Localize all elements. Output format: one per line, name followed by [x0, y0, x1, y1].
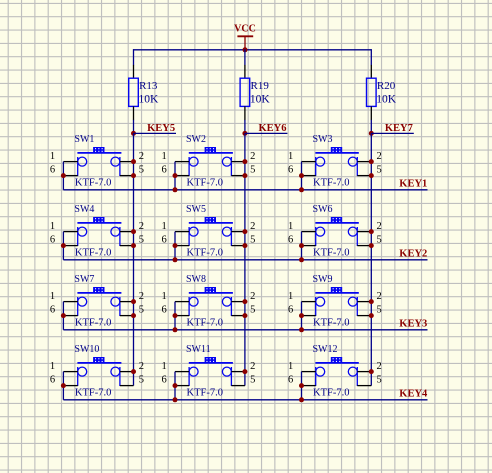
SW6 button cap [331, 217, 342, 222]
junction node KEY5 [131, 131, 136, 136]
junction SW5 pin6/pin1 tie [173, 243, 178, 248]
SW3 button cap [331, 147, 342, 152]
SW5 left terminal [188, 227, 190, 246]
SW1 pin 2 [120, 161, 134, 163]
wire net KEY7 stub [371, 132, 414, 134]
switch SW10 KTF-7.0 [50, 344, 144, 400]
SW10 button cap [93, 357, 104, 362]
SW2 left contact [189, 157, 198, 166]
svg-text:KTF-7.0: KTF-7.0 [313, 318, 349, 329]
wire SW8 left pins to row net [174, 302, 176, 330]
junction VCC rail / R19 branch [243, 47, 248, 52]
svg-text:SW1: SW1 [74, 134, 94, 145]
SW8 button cap [205, 287, 216, 292]
SW4 right terminal [119, 227, 121, 246]
junction SW2 pin2 to column bus [242, 159, 247, 164]
svg-text:6: 6 [288, 165, 293, 176]
svg-text:KEY3: KEY3 [399, 318, 427, 329]
SW11 pin 1 [175, 371, 189, 373]
svg-text:2: 2 [250, 221, 255, 232]
svg-text:KTF-7.0: KTF-7.0 [187, 318, 223, 329]
SW2 pin 5 [231, 175, 245, 177]
R20 pin 2 (bottom) [370, 106, 372, 120]
wire column bus KEY7 [370, 133, 372, 385]
svg-text:10K: 10K [376, 93, 397, 105]
SW9 pin 1 [302, 301, 316, 303]
svg-text:5: 5 [377, 235, 382, 246]
SW8 actuator bar [189, 292, 233, 294]
svg-text:5: 5 [250, 235, 255, 246]
svg-text:SW10: SW10 [74, 344, 99, 355]
wire net KEY3 row [63, 329, 427, 331]
wire SW10 left pins to row net [62, 372, 64, 400]
svg-text:KEY6: KEY6 [259, 123, 287, 134]
SW9 pin 2 [357, 301, 371, 303]
svg-text:5: 5 [139, 305, 144, 316]
wire SW6 left pins to row net [301, 232, 303, 260]
junction SW8 pin5 to column bus [242, 313, 247, 318]
junction SW1 pin2 to column bus [131, 159, 136, 164]
svg-text:6: 6 [161, 165, 166, 176]
svg-text:1: 1 [50, 361, 55, 372]
svg-text:5: 5 [250, 305, 255, 316]
svg-text:2: 2 [377, 291, 382, 302]
svg-text:1: 1 [288, 151, 293, 162]
junction SW8 drop to row net [173, 327, 178, 332]
switch SW1 KTF-7.0 [50, 134, 144, 190]
svg-text:SW2: SW2 [186, 134, 206, 145]
svg-text:5: 5 [377, 375, 382, 386]
wire SW12 left pins to row net [301, 372, 303, 400]
SW8 pin 2 [231, 301, 245, 303]
junction SW2 drop to row net [173, 187, 178, 192]
SW3 right contact [348, 157, 357, 166]
SW2 right contact [222, 157, 231, 166]
svg-text:1: 1 [161, 221, 166, 232]
SW3 pin 6 [302, 175, 316, 177]
SW4 button cap [93, 217, 104, 222]
svg-text:SW11: SW11 [186, 344, 211, 355]
SW4 pin 6 [63, 245, 77, 247]
SW12 pin 5 [357, 385, 371, 387]
SW8 left contact [189, 297, 198, 306]
junction SW6 drop to row net [299, 257, 304, 262]
junction SW3 drop to row net [299, 187, 304, 192]
SW12 left contact [316, 367, 325, 376]
wire net KEY5 stub [134, 132, 177, 134]
svg-text:6: 6 [161, 235, 166, 246]
junction SW2 pin6/pin1 tie [173, 173, 178, 178]
SW7 right terminal [119, 297, 121, 316]
svg-text:SW8: SW8 [186, 274, 206, 285]
resistor R19 10K [240, 65, 270, 120]
svg-text:1: 1 [50, 291, 55, 302]
svg-text:1: 1 [50, 151, 55, 162]
SW8 pin 1 [175, 301, 189, 303]
resistor R20 10K [367, 65, 397, 120]
SW3 pin 1 [302, 161, 316, 163]
svg-text:R13: R13 [139, 80, 158, 92]
wire net KEY6 stub [245, 132, 288, 134]
R20 pin 1 (top) [370, 65, 372, 78]
wire SW9 left pins to row net [301, 302, 303, 330]
svg-text:2: 2 [139, 221, 144, 232]
SW4 left terminal [77, 227, 79, 246]
SW11 pin 5 [231, 385, 245, 387]
wire column bus KEY5 [133, 133, 135, 385]
svg-text:2: 2 [250, 291, 255, 302]
SW1 left terminal [77, 157, 79, 176]
SW7 actuator bar [77, 292, 121, 294]
SW8 right terminal [230, 297, 232, 316]
SW3 left contact [316, 157, 325, 166]
junction SW10 pin6/pin1 tie [61, 383, 66, 388]
svg-text:2: 2 [139, 361, 144, 372]
junction SW5 pin2 to column bus [242, 229, 247, 234]
svg-text:R19: R19 [251, 80, 270, 92]
svg-text:KTF-7.0: KTF-7.0 [187, 178, 223, 189]
svg-text:1: 1 [288, 221, 293, 232]
SW6 pin 6 [302, 245, 316, 247]
SW2 right terminal [230, 157, 232, 176]
SW3 right terminal [356, 157, 358, 176]
junction SW9 pin6/pin1 tie [299, 313, 304, 318]
SW12 button cap [331, 357, 342, 362]
SW1 button cap [93, 147, 104, 152]
svg-text:SW12: SW12 [313, 344, 338, 355]
svg-text:6: 6 [50, 235, 55, 246]
junction SW9 pin2 to column bus [369, 299, 374, 304]
SW10 left terminal [77, 367, 79, 386]
SW6 pin 2 [357, 231, 371, 233]
SW5 actuator bar [189, 222, 233, 224]
svg-text:6: 6 [288, 235, 293, 246]
junction SW7 pin5 to column bus [131, 313, 136, 318]
SW5 pin 1 [175, 231, 189, 233]
SW10 pin 1 [63, 371, 77, 373]
svg-text:5: 5 [250, 375, 255, 386]
SW6 pin 5 [357, 245, 371, 247]
junction SW12 drop to row net [299, 397, 304, 402]
SW9 pin 5 [357, 315, 371, 317]
switch SW8 KTF-7.0 [161, 274, 255, 332]
R19 pin 1 (top) [244, 65, 246, 78]
SW12 pin 2 [357, 371, 371, 373]
SW11 left contact [189, 367, 198, 376]
svg-text:KTF-7.0: KTF-7.0 [75, 178, 111, 189]
SW8 right contact [222, 297, 231, 306]
SW4 pin 2 [120, 231, 134, 233]
junction SW9 pin5 to column bus [369, 313, 374, 318]
SW8 pin 5 [231, 315, 245, 317]
SW12 actuator bar [315, 362, 358, 364]
SW1 right contact [111, 157, 120, 166]
SW12 pin 6 [302, 385, 316, 387]
SW9 button cap [331, 287, 342, 292]
resistor R13 10K [129, 65, 159, 120]
SW4 left contact [78, 227, 87, 236]
svg-text:2: 2 [377, 361, 382, 372]
junction SW6 pin6/pin1 tie [299, 243, 304, 248]
svg-text:5: 5 [139, 235, 144, 246]
SW9 left contact [316, 297, 325, 306]
svg-text:SW7: SW7 [74, 274, 94, 285]
wire SW11 left pins to row net [174, 372, 176, 400]
switch SW9 KTF-7.0 [288, 274, 382, 332]
svg-text:6: 6 [161, 305, 166, 316]
junction SW4 pin6/pin1 tie [61, 243, 66, 248]
switch SW2 KTF-7.0 [161, 134, 255, 192]
SW7 pin 6 [63, 315, 77, 317]
switch SW4 KTF-7.0 [50, 204, 144, 260]
svg-text:1: 1 [161, 151, 166, 162]
SW11 pin 2 [231, 371, 245, 373]
SW6 right contact [348, 227, 357, 236]
wire rail drop to R20 [370, 49, 372, 65]
SW6 left contact [316, 227, 325, 236]
switch SW5 KTF-7.0 [161, 204, 255, 262]
wire R19 bottom to KEY6 node [244, 120, 246, 134]
SW7 left terminal [77, 297, 79, 316]
SW6 right terminal [356, 227, 358, 246]
SW2 button cap [205, 147, 216, 152]
svg-text:1: 1 [50, 221, 55, 232]
junction SW8 pin2 to column bus [242, 299, 247, 304]
junction SW3 pin6/pin1 tie [299, 173, 304, 178]
svg-text:KEY2: KEY2 [399, 248, 427, 259]
junction SW11 pin6/pin1 tie [173, 383, 178, 388]
SW11 pin 6 [175, 385, 189, 387]
wire net KEY1 row [63, 189, 427, 191]
junction SW2 pin5 to column bus [242, 173, 247, 178]
SW5 pin 2 [231, 231, 245, 233]
switch SW7 KTF-7.0 [50, 274, 144, 330]
R19 body [240, 78, 250, 106]
svg-text:2: 2 [250, 151, 255, 162]
svg-text:KEY7: KEY7 [385, 123, 413, 134]
SW4 pin 5 [120, 245, 134, 247]
wire rail drop to R19 [244, 49, 246, 65]
svg-text:6: 6 [288, 375, 293, 386]
svg-text:2: 2 [250, 361, 255, 372]
svg-text:KTF-7.0: KTF-7.0 [75, 318, 111, 329]
junction SW4 pin2 to column bus [131, 229, 136, 234]
SW12 right terminal [356, 367, 358, 386]
SW3 actuator bar [315, 152, 358, 154]
SW7 pin 5 [120, 315, 134, 317]
switch SW12 KTF-7.0 [288, 344, 382, 402]
SW9 left terminal [315, 297, 317, 316]
SW6 actuator bar [315, 222, 358, 224]
R13 body [129, 78, 139, 106]
SW1 actuator bar [77, 152, 121, 154]
SW12 right contact [348, 367, 357, 376]
wire column bus KEY6 [244, 133, 246, 385]
wire net KEY2 row [63, 259, 427, 261]
svg-text:KTF-7.0: KTF-7.0 [313, 178, 349, 189]
SW8 pin 6 [175, 315, 189, 317]
R20 body [367, 78, 377, 106]
SW9 actuator bar [315, 292, 358, 294]
wire rail drop to R13 [133, 49, 135, 65]
svg-text:SW3: SW3 [313, 134, 333, 145]
junction SW5 pin5 to column bus [242, 243, 247, 248]
svg-text:1: 1 [288, 361, 293, 372]
svg-text:SW9: SW9 [313, 274, 333, 285]
svg-text:KTF-7.0: KTF-7.0 [75, 248, 111, 259]
SW7 pin 1 [63, 301, 77, 303]
svg-text:SW6: SW6 [313, 204, 333, 215]
SW10 right contact [111, 367, 120, 376]
SW3 pin 2 [357, 161, 371, 163]
wire SW7 left pins to row net [62, 302, 64, 330]
SW11 right terminal [230, 367, 232, 386]
svg-text:5: 5 [377, 305, 382, 316]
svg-text:6: 6 [161, 375, 166, 386]
svg-text:2: 2 [377, 221, 382, 232]
junction SW5 drop to row net [173, 257, 178, 262]
SW3 pin 5 [357, 175, 371, 177]
SW4 right contact [111, 227, 120, 236]
switch SW3 KTF-7.0 [288, 134, 382, 192]
svg-text:KTF-7.0: KTF-7.0 [313, 248, 349, 259]
junction SW1 pin5 to column bus [131, 173, 136, 178]
SW1 pin 5 [120, 175, 134, 177]
svg-text:6: 6 [288, 305, 293, 316]
wire SW3 left pins to row net [301, 162, 303, 190]
SW10 pin 2 [120, 371, 134, 373]
svg-text:KEY1: KEY1 [399, 178, 427, 189]
svg-text:SW5: SW5 [186, 204, 206, 215]
SW1 left contact [78, 157, 87, 166]
wire SW4 left pins to row net [62, 232, 64, 260]
SW12 pin 1 [302, 371, 316, 373]
wire net KEY4 row [63, 399, 427, 401]
junction SW4 pin5 to column bus [131, 243, 136, 248]
SW5 right contact [222, 227, 231, 236]
svg-text:KTF-7.0: KTF-7.0 [187, 248, 223, 259]
svg-text:KTF-7.0: KTF-7.0 [75, 388, 111, 399]
junction SW9 drop to row net [299, 327, 304, 332]
svg-text:1: 1 [288, 291, 293, 302]
R13 pin 1 (top) [133, 65, 135, 78]
SW5 button cap [205, 217, 216, 222]
svg-text:KEY4: KEY4 [399, 388, 428, 399]
junction node KEY7 [369, 131, 374, 136]
svg-text:VCC: VCC [234, 24, 256, 35]
svg-text:KTF-7.0: KTF-7.0 [187, 388, 223, 399]
SW2 pin 1 [175, 161, 189, 163]
SW2 pin 6 [175, 175, 189, 177]
SW10 left contact [78, 367, 87, 376]
svg-text:2: 2 [139, 151, 144, 162]
svg-text:2: 2 [377, 151, 382, 162]
svg-text:5: 5 [139, 375, 144, 386]
svg-text:10K: 10K [139, 93, 160, 105]
svg-text:SW4: SW4 [74, 204, 94, 215]
SW6 pin 1 [302, 231, 316, 233]
SW2 actuator bar [189, 152, 233, 154]
SW10 pin 5 [120, 385, 134, 387]
svg-text:R20: R20 [377, 80, 396, 92]
SW11 right contact [222, 367, 231, 376]
junction SW6 pin5 to column bus [369, 243, 374, 248]
wire SW1 left pins to row net [62, 162, 64, 190]
R13 pin 2 (bottom) [133, 106, 135, 120]
junction SW3 pin2 to column bus [369, 159, 374, 164]
junction SW11 drop to row net [173, 397, 178, 402]
wire SW5 left pins to row net [174, 232, 176, 260]
SW7 button cap [93, 287, 104, 292]
wire R13 bottom to KEY5 node [133, 120, 135, 134]
R19 pin 2 (bottom) [244, 106, 246, 120]
junction SW12 pin2 to column bus [369, 369, 374, 374]
SW2 left terminal [188, 157, 190, 176]
junction SW12 pin6/pin1 tie [299, 383, 304, 388]
SW6 left terminal [315, 227, 317, 246]
SW12 left terminal [315, 367, 317, 386]
SW2 pin 2 [231, 161, 245, 163]
SW8 left terminal [188, 297, 190, 316]
SW10 right terminal [119, 367, 121, 386]
svg-text:KTF-7.0: KTF-7.0 [313, 388, 349, 399]
SW1 pin 6 [63, 175, 77, 177]
SW11 button cap [205, 357, 216, 362]
svg-text:6: 6 [50, 165, 55, 176]
junction SW8 pin6/pin1 tie [173, 313, 178, 318]
power port VCC [234, 24, 256, 50]
SW4 pin 1 [63, 231, 77, 233]
junction SW6 pin2 to column bus [369, 229, 374, 234]
SW4 actuator bar [77, 222, 121, 224]
wire SW2 left pins to row net [174, 162, 176, 190]
SW10 actuator bar [77, 362, 121, 364]
switch SW11 KTF-7.0 [161, 344, 255, 402]
svg-text:5: 5 [377, 165, 382, 176]
junction SW10 pin2 to column bus [131, 369, 136, 374]
svg-text:5: 5 [139, 165, 144, 176]
svg-text:KEY5: KEY5 [147, 123, 175, 134]
SW5 right terminal [230, 227, 232, 246]
wire R20 bottom to KEY7 node [370, 120, 372, 134]
junction SW1 pin6/pin1 tie [61, 173, 66, 178]
SW5 left contact [189, 227, 198, 236]
switch SW6 KTF-7.0 [288, 204, 382, 262]
svg-text:6: 6 [50, 305, 55, 316]
SW9 right contact [348, 297, 357, 306]
junction SW7 pin2 to column bus [131, 299, 136, 304]
junction SW7 pin6/pin1 tie [61, 313, 66, 318]
SW9 pin 6 [302, 315, 316, 317]
SW7 left contact [78, 297, 87, 306]
junction SW11 pin2 to column bus [242, 369, 247, 374]
SW7 right contact [111, 297, 120, 306]
SW1 right terminal [119, 157, 121, 176]
SW10 pin 6 [63, 385, 77, 387]
SW7 pin 2 [120, 301, 134, 303]
svg-text:1: 1 [161, 361, 166, 372]
svg-text:10K: 10K [250, 93, 271, 105]
junction node KEY6 [242, 131, 247, 136]
SW3 left terminal [315, 157, 317, 176]
SW11 left terminal [188, 367, 190, 386]
junction SW3 pin5 to column bus [369, 173, 374, 178]
svg-text:6: 6 [50, 375, 55, 386]
SW11 actuator bar [189, 362, 233, 364]
svg-text:1: 1 [161, 291, 166, 302]
SW5 pin 6 [175, 245, 189, 247]
SW5 pin 5 [231, 245, 245, 247]
